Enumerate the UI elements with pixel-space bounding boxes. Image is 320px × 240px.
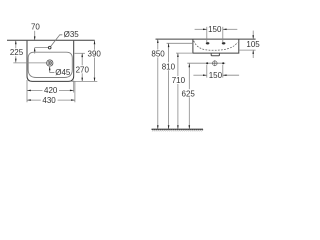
drain centre line (for 625): [187, 62, 225, 64]
svg-text:270: 270: [76, 65, 90, 74]
floor line: [152, 128, 204, 130]
faucet hole: [48, 46, 51, 49]
dim 150 top: extension lines down to slots: [206, 27, 208, 42]
svg-text:710: 710: [172, 76, 186, 85]
svg-text:810: 810: [162, 62, 176, 71]
label 430: [41, 96, 58, 104]
svg-text:Ø45: Ø45: [55, 68, 71, 77]
dim 150 bottom: extension lines from dots: [206, 65, 208, 78]
label 420: [43, 86, 60, 94]
svg-text:70: 70: [31, 23, 40, 32]
dim 70: extension line through faucet level: [35, 47, 48, 49]
dim 430: line with outward arrows: [27, 99, 75, 101]
connection point right (dot): [222, 62, 224, 64]
svg-text:390: 390: [88, 49, 102, 58]
dim 850: vertical line: [157, 39, 159, 49]
dim 225: vertical line: [15, 40, 17, 48]
arrow up to drain: [49, 67, 51, 71]
svg-text:430: 430: [42, 96, 56, 105]
extension line deck-hole level (for 810): [167, 42, 193, 44]
hidden bowl contour (dashed): [194, 41, 238, 51]
dim 150 bottom: line with outside arrows: [193, 74, 206, 76]
basin body outline: [193, 39, 239, 53]
dim 70: upper line with down arrow: [34, 31, 36, 40]
dim 420: line with outward arrows: [27, 89, 74, 91]
dim 390: vertical line right: [94, 40, 96, 49]
svg-text:150: 150: [209, 71, 223, 80]
svg-text:420: 420: [44, 86, 58, 95]
floor hatching: [152, 130, 203, 132]
inner bowl outline: [28, 52, 72, 77]
dim 70: lower arrow pointing up: [34, 48, 36, 54]
dim 710: vertical line: [177, 53, 179, 76]
connection point left (dot): [206, 62, 208, 64]
dim 420: extension lines: [26, 80, 28, 102]
dim 150 top: line with inward arrows: [195, 28, 207, 30]
basin outer outline: [27, 41, 74, 82]
drain foot: [211, 53, 219, 56]
svg-text:850: 850: [151, 49, 165, 58]
svg-text:105: 105: [246, 40, 260, 49]
svg-text:225: 225: [10, 48, 24, 57]
svg-text:150: 150: [208, 25, 222, 34]
dim 105: bottom extension line: [239, 49, 255, 51]
leader line to Ø35: [51, 35, 63, 47]
dim 430: extension lines: [74, 81, 76, 102]
deck slot right: [222, 42, 226, 44]
dim 225: extension line to drain centre: [13, 62, 46, 64]
leader line to Ø45: [50, 67, 55, 72]
svg-text:Ø35: Ø35: [64, 30, 80, 39]
back edge line: [7, 39, 95, 41]
dim 105: vertical line with outside arrows: [252, 31, 254, 39]
svg-text:625: 625: [182, 89, 196, 98]
bottom extension line from basin bottom: [72, 80, 98, 82]
top rim line with extensions: [156, 38, 256, 40]
deck slot left: [206, 42, 210, 44]
dim 270: vertical line: [81, 53, 83, 65]
dim 270: extension line from bowl top: [75, 52, 85, 54]
wall drain symbol (circle with cross): [212, 60, 218, 66]
drain symbol (concentric circles): [46, 59, 53, 66]
dim 625: vertical line: [188, 64, 190, 90]
extension of bottom edge (for 710): [176, 52, 193, 54]
dim 810: vertical line: [168, 44, 170, 63]
